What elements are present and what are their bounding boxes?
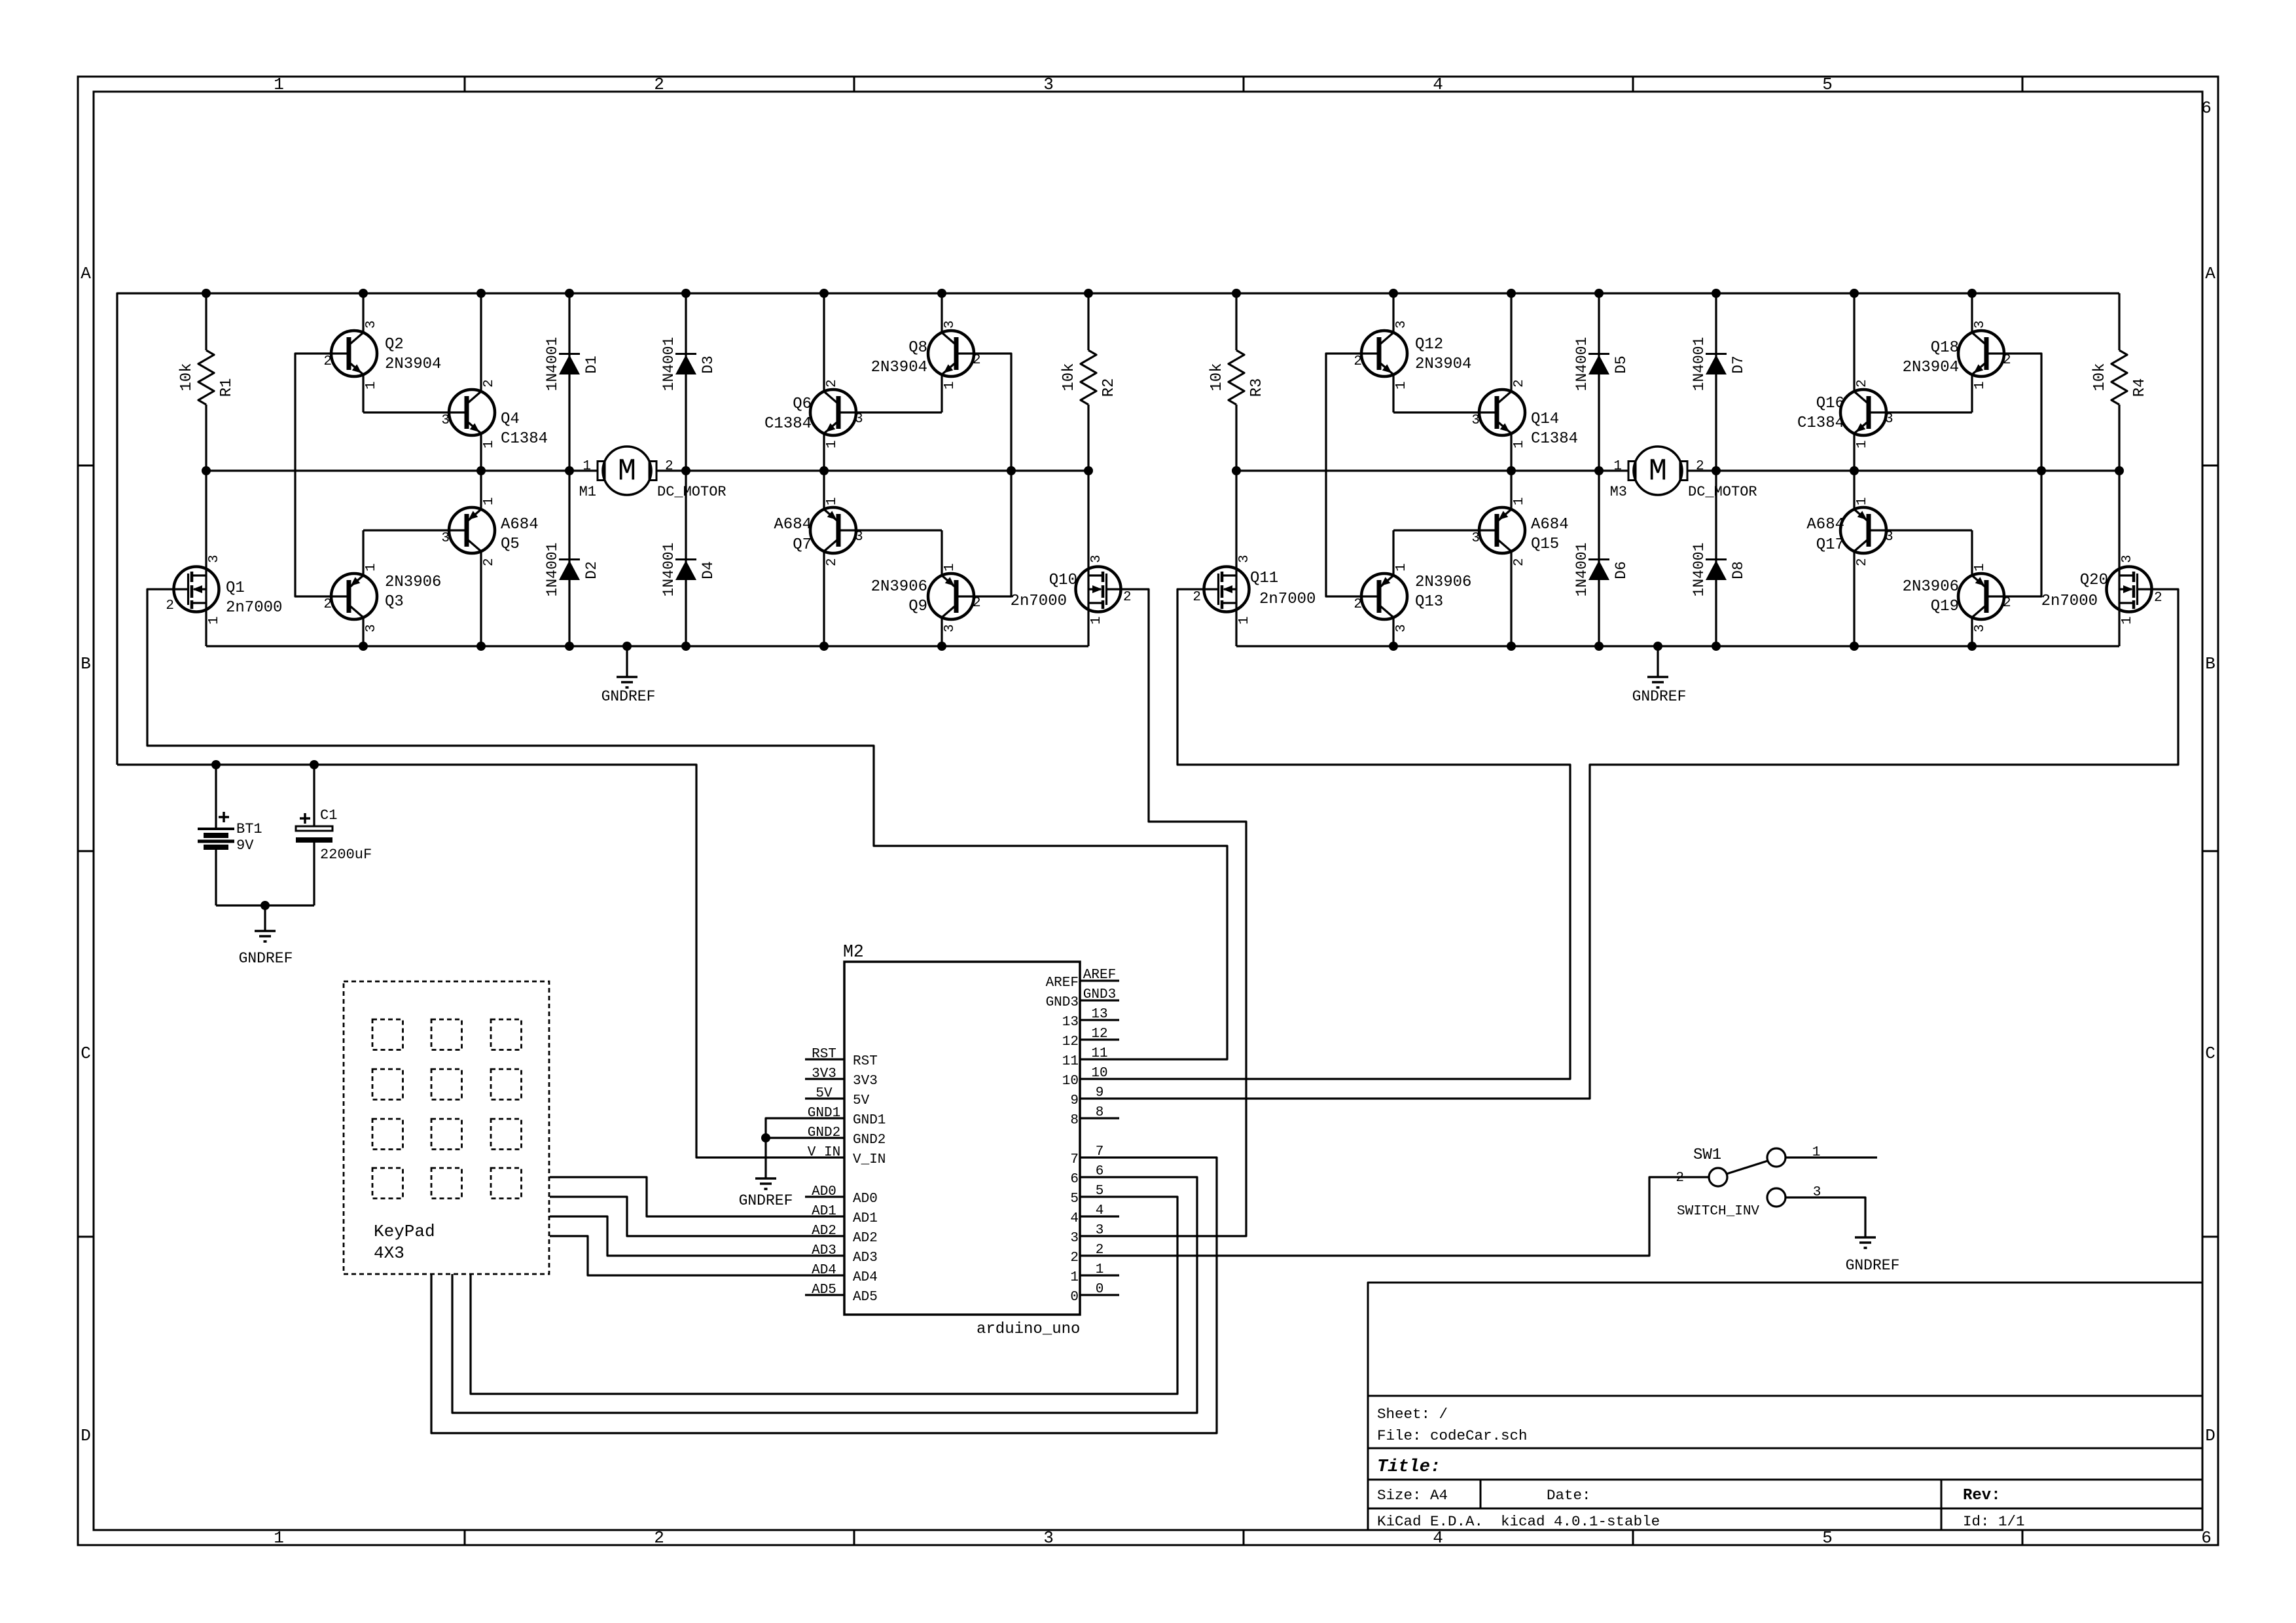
svg-text:10k: 10k	[1208, 363, 1226, 391]
svg-text:D3: D3	[700, 356, 717, 374]
svg-text:1N4001: 1N4001	[1573, 543, 1590, 597]
svg-text:Sheet: /: Sheet: /	[1377, 1406, 1448, 1423]
transistor Q17 A684	[1806, 471, 1893, 646]
svg-text:Q7: Q7	[793, 536, 812, 554]
svg-text:3: 3	[1885, 412, 1893, 427]
battery BT1 9V	[198, 765, 262, 905]
pin 12 of M2	[1062, 1027, 1119, 1049]
transistor Q16 C1384	[1797, 293, 1893, 471]
wire: GNDREF tap battery	[264, 905, 266, 931]
pin 4 of M2	[1070, 1203, 1119, 1226]
svg-text:Q19: Q19	[1931, 598, 1959, 615]
svg-text:D8: D8	[1730, 561, 1747, 579]
transistor Q1 2n7000	[166, 471, 282, 646]
svg-text:GNDREF: GNDREF	[1846, 1257, 1900, 1274]
svg-text:C: C	[2205, 1044, 2215, 1063]
pin AD1 of M2	[805, 1204, 878, 1226]
svg-text:3: 3	[441, 413, 450, 428]
svg-text:1: 1	[1855, 440, 1870, 448]
pin 13 of M2	[1062, 1007, 1119, 1030]
svg-text:2: 2	[323, 354, 332, 369]
wire: Q9 emitter to Q7 base	[838, 529, 942, 531]
svg-text:AD5: AD5	[853, 1290, 878, 1305]
svg-text:1: 1	[1512, 440, 1527, 448]
svg-text:1: 1	[942, 381, 958, 390]
svg-text:4X3: 4X3	[374, 1243, 404, 1263]
svg-text:GND3: GND3	[1083, 987, 1116, 1002]
svg-text:C1384: C1384	[1797, 414, 1844, 432]
svg-text:GNDREF: GNDREF	[601, 688, 656, 705]
svg-text:2: 2	[654, 75, 664, 94]
svg-text:6: 6	[2201, 1528, 2212, 1548]
svg-text:Q18: Q18	[1931, 339, 1959, 357]
wire: right bridge motor row west segment	[1236, 469, 1599, 471]
svg-text:9V: 9V	[236, 837, 254, 854]
wire: arduino pin 2 to SW1	[1119, 1177, 1709, 1256]
svg-text:AREF: AREF	[1046, 976, 1079, 991]
svg-text:13: 13	[1062, 1015, 1079, 1030]
svg-text:3: 3	[441, 531, 450, 546]
svg-text:A684: A684	[501, 516, 539, 534]
svg-text:A684: A684	[1531, 516, 1569, 534]
svg-text:arduino_uno: arduino_uno	[977, 1321, 1080, 1338]
transistor Q12 2N3904	[1354, 293, 1471, 412]
pin GND2 of M2	[805, 1125, 886, 1148]
wire: Q12-Q13 base column	[1326, 354, 1379, 596]
title block	[1368, 1283, 2202, 1530]
switch SW1 SWITCH_INV	[1676, 1145, 1821, 1219]
svg-text:1: 1	[1394, 381, 1409, 390]
resistor R2	[1060, 293, 1118, 471]
svg-text:3: 3	[1813, 1185, 1821, 1200]
svg-text:8: 8	[1096, 1105, 1104, 1120]
pin 2 of M2	[1070, 1243, 1119, 1266]
svg-text:1: 1	[1070, 1270, 1079, 1285]
svg-text:C: C	[81, 1044, 91, 1063]
transistor Q13 2N3906	[1354, 530, 1471, 646]
svg-text:R1: R1	[218, 378, 236, 397]
wire: right bridge motor row east segment	[1716, 469, 2119, 471]
svg-text:B: B	[2205, 654, 2215, 674]
svg-text:A684: A684	[774, 516, 812, 534]
svg-text:1: 1	[274, 75, 284, 94]
junction dots top bus	[202, 289, 1977, 298]
pin 9 of M2	[1070, 1085, 1119, 1108]
svg-text:2: 2	[2003, 596, 2011, 611]
svg-text:3: 3	[942, 624, 958, 632]
svg-text:BT1: BT1	[236, 821, 262, 837]
svg-text:Q6: Q6	[793, 395, 812, 413]
svg-text:V_IN: V_IN	[853, 1152, 886, 1167]
svg-text:2: 2	[1512, 558, 1527, 566]
pin 3V3 of M2	[805, 1067, 878, 1089]
ground GNDREF right bridge	[1632, 677, 1687, 705]
svg-text:AD3: AD3	[853, 1250, 878, 1266]
svg-text:3: 3	[1471, 531, 1480, 546]
transistor Q8 2N3904	[871, 293, 981, 412]
resistor R3	[1208, 293, 1266, 471]
pin 11 of M2	[1062, 1046, 1119, 1069]
wire: Q10 gate to arduino pin 3	[1107, 589, 1246, 1236]
pin 7 of M2	[1070, 1144, 1119, 1167]
svg-text:2: 2	[1676, 1171, 1684, 1186]
svg-text:Q20: Q20	[2080, 572, 2108, 589]
pin 3 of M2	[1070, 1223, 1119, 1246]
svg-text:R3: R3	[1248, 378, 1266, 397]
transistor Q18 2N3904	[1903, 293, 2011, 412]
svg-text:2: 2	[1855, 379, 1870, 388]
svg-text:12: 12	[1062, 1034, 1079, 1049]
svg-text:3: 3	[855, 412, 863, 427]
pin GND3 of M2	[1046, 987, 1119, 1010]
svg-text:KiCad E.D.A. kicad 4.0.1-stab: KiCad E.D.A. kicad 4.0.1-stable	[1377, 1513, 1660, 1530]
svg-text:Size: A4: Size: A4	[1377, 1487, 1448, 1504]
svg-text:D: D	[2205, 1426, 2215, 1446]
svg-text:GND1: GND1	[853, 1113, 886, 1128]
svg-text:3: 3	[1043, 75, 1054, 94]
svg-text:2: 2	[1512, 379, 1527, 388]
svg-text:1: 1	[2120, 616, 2135, 625]
wire: SW1 pin 3 to GNDREF	[1785, 1197, 1865, 1237]
diode D1	[544, 293, 600, 471]
svg-text:RST: RST	[853, 1054, 878, 1069]
svg-text:D: D	[81, 1426, 91, 1446]
wire: GNDREF tap left bridge	[626, 646, 628, 677]
svg-text:2: 2	[1070, 1250, 1079, 1266]
svg-text:5: 5	[1070, 1192, 1079, 1207]
wire: SW1 pin 1	[1785, 1156, 1877, 1158]
svg-text:M: M	[1649, 455, 1667, 490]
svg-text:2: 2	[973, 353, 981, 368]
junction dots power rail	[211, 760, 770, 1142]
transistor Q10 2n7000	[1011, 471, 1132, 646]
diode D8	[1691, 471, 1747, 646]
diode D7	[1691, 293, 1747, 471]
wire: keypad row to AD1	[550, 1177, 805, 1216]
svg-text:2: 2	[654, 1528, 664, 1548]
svg-text:2: 2	[2154, 591, 2162, 606]
svg-text:2: 2	[1855, 558, 1870, 566]
svg-text:File: codeCar.sch: File: codeCar.sch	[1377, 1427, 1528, 1444]
svg-text:3: 3	[207, 555, 222, 563]
pin 5V of M2	[805, 1086, 870, 1108]
svg-text:GNDREF: GNDREF	[1632, 688, 1687, 705]
svg-text:4: 4	[1070, 1211, 1079, 1226]
svg-text:11: 11	[1062, 1054, 1079, 1069]
row dividers	[78, 465, 2218, 1237]
svg-text:2: 2	[973, 596, 981, 611]
svg-text:B: B	[81, 654, 91, 674]
svg-text:2: 2	[166, 598, 174, 613]
transistor Q4 C1384	[441, 293, 548, 471]
svg-text:6: 6	[1070, 1172, 1079, 1187]
svg-text:2: 2	[323, 597, 332, 612]
svg-text:SW1: SW1	[1693, 1146, 1721, 1164]
svg-text:M3: M3	[1610, 484, 1627, 500]
svg-text:3: 3	[855, 530, 863, 545]
svg-text:1N4001: 1N4001	[1691, 543, 1708, 597]
svg-text:RST: RST	[812, 1047, 836, 1062]
svg-text:1N4001: 1N4001	[1691, 337, 1708, 392]
svg-text:AD4: AD4	[812, 1263, 836, 1278]
diode D6	[1573, 471, 1630, 646]
wire: battery rail to V_IN	[117, 765, 805, 1158]
svg-text:1N4001: 1N4001	[1573, 337, 1590, 392]
svg-text:1: 1	[1096, 1262, 1104, 1277]
wire: left bridge motor row west segment	[206, 469, 569, 471]
svg-text:AREF: AREF	[1083, 968, 1116, 983]
wire: +9V top bus and left rail	[117, 293, 2119, 765]
svg-text:1N4001: 1N4001	[544, 543, 561, 597]
svg-text:2n7000: 2n7000	[1011, 593, 1067, 610]
svg-text:R4: R4	[2131, 378, 2149, 397]
svg-text:D5: D5	[1613, 356, 1630, 374]
svg-text:3: 3	[1096, 1223, 1104, 1238]
svg-text:D6: D6	[1613, 561, 1630, 579]
transistor Q6 C1384	[764, 293, 863, 471]
svg-text:AD2: AD2	[812, 1224, 836, 1239]
ground GNDREF left bridge	[601, 677, 656, 705]
svg-text:2N3906: 2N3906	[385, 574, 441, 591]
svg-text:3: 3	[1237, 555, 1252, 563]
svg-text:Q1: Q1	[226, 579, 245, 597]
resistor R1	[178, 293, 236, 471]
wire: Q11 gate to arduino pin 10	[1119, 589, 1570, 1079]
svg-text:GND3: GND3	[1046, 995, 1079, 1010]
svg-text:3V3: 3V3	[853, 1074, 878, 1089]
transistor Q20 2n7000	[2041, 471, 2162, 646]
pin V_IN of M2	[805, 1145, 886, 1167]
svg-text:1: 1	[1394, 563, 1409, 572]
svg-text:1: 1	[1089, 616, 1104, 625]
wire: arduino GND1 to GNDREF	[766, 1118, 805, 1178]
svg-text:3V3: 3V3	[812, 1067, 836, 1082]
IC M2 arduino_uno body	[843, 942, 1080, 1338]
svg-text:4: 4	[1433, 1528, 1443, 1548]
diode D2	[544, 471, 600, 646]
svg-text:Title:: Title:	[1377, 1457, 1441, 1477]
svg-text:5: 5	[1822, 1528, 1833, 1548]
pin 6 of M2	[1070, 1164, 1119, 1187]
svg-text:GND2: GND2	[808, 1125, 840, 1140]
svg-text:A684: A684	[1806, 516, 1844, 534]
wire: Q2-Q3 base column	[295, 354, 349, 596]
pin AD5 of M2	[805, 1283, 878, 1305]
svg-text:1: 1	[1855, 497, 1870, 505]
svg-text:D7: D7	[1730, 356, 1747, 374]
svg-text:3: 3	[1043, 1528, 1054, 1548]
svg-text:Q14: Q14	[1531, 410, 1559, 428]
wire: keypad col to arduino pin 5	[471, 1197, 1177, 1394]
svg-text:M2: M2	[843, 942, 864, 962]
svg-text:10k: 10k	[2091, 363, 2109, 391]
ground GNDREF arduino	[739, 1178, 793, 1209]
svg-text:1: 1	[1812, 1145, 1821, 1160]
svg-text:Q4: Q4	[501, 410, 520, 428]
svg-text:6: 6	[2201, 98, 2212, 118]
wire: Q2 emitter to Q4 base	[363, 411, 466, 413]
svg-text:1: 1	[825, 440, 840, 448]
wire: Q13 emitter to Q15 base	[1393, 529, 1497, 531]
wire: keypad col to arduino pin 6	[452, 1177, 1197, 1413]
svg-text:3: 3	[1394, 320, 1409, 329]
svg-text:1: 1	[482, 440, 497, 448]
svg-text:3: 3	[1973, 320, 1988, 329]
svg-text:2: 2	[482, 379, 497, 388]
svg-text:AD0: AD0	[812, 1184, 836, 1199]
svg-text:C1384: C1384	[764, 415, 812, 433]
svg-text:2: 2	[1193, 590, 1201, 605]
diode D3	[660, 293, 717, 471]
svg-text:2: 2	[1123, 590, 1132, 605]
junction dots bottom buses	[359, 642, 1977, 651]
column dividers	[465, 77, 2022, 1545]
frame row labels	[81, 264, 2215, 1446]
svg-text:AD1: AD1	[812, 1204, 836, 1219]
ground GNDREF switch	[1846, 1237, 1900, 1274]
svg-text:Rev:: Rev:	[1963, 1487, 2001, 1504]
wire: right bridge bottom bus	[1236, 645, 2119, 647]
wire: Q18/Q19 bases to motor row	[1986, 354, 2041, 596]
svg-text:1: 1	[1973, 381, 1988, 390]
svg-text:Q15: Q15	[1531, 536, 1559, 553]
svg-text:3: 3	[1089, 555, 1104, 563]
svg-text:Q11: Q11	[1250, 570, 1278, 587]
svg-text:1: 1	[364, 381, 379, 390]
svg-text:2n7000: 2n7000	[2041, 593, 2098, 610]
capacitor C1 2200uF	[296, 765, 372, 905]
svg-text:M1: M1	[579, 484, 596, 500]
svg-text:GNDREF: GNDREF	[739, 1192, 793, 1209]
svg-text:2N3904: 2N3904	[385, 356, 441, 373]
svg-text:9: 9	[1070, 1093, 1079, 1108]
junction dots motor rows	[202, 466, 2124, 475]
svg-text:AD2: AD2	[853, 1231, 878, 1246]
svg-text:Q12: Q12	[1415, 336, 1443, 354]
svg-text:C1384: C1384	[501, 430, 548, 448]
wire: Q8/Q9 bases to motor row	[956, 354, 1011, 596]
svg-text:2N3904: 2N3904	[871, 359, 927, 376]
ground GNDREF battery	[239, 931, 293, 967]
wire: M3 pin stubs	[1599, 469, 1716, 471]
svg-text:GND2: GND2	[853, 1133, 886, 1148]
motor M3 DC_MOTOR	[1610, 447, 1757, 500]
svg-text:AD1: AD1	[853, 1211, 878, 1226]
wire: GNDREF tap right bridge	[1657, 646, 1659, 677]
svg-text:3: 3	[2120, 555, 2135, 563]
svg-text:R2: R2	[1100, 378, 1118, 397]
wire: Q1 gate to arduino pin 11	[147, 589, 1227, 1059]
wire: Q12 emitter to Q14 base	[1393, 411, 1497, 413]
wire: keypad row to AD3	[550, 1216, 805, 1256]
svg-text:C1384: C1384	[1531, 430, 1578, 448]
pin AREF of M2	[1046, 968, 1119, 991]
svg-text:12: 12	[1091, 1027, 1107, 1042]
wire: keypad row to AD4	[550, 1236, 805, 1275]
pin AD2 of M2	[805, 1224, 878, 1246]
wire: Q3 emitter to Q5 base	[363, 529, 466, 531]
svg-text:1: 1	[207, 616, 222, 625]
svg-text:11: 11	[1091, 1046, 1107, 1061]
svg-text:1: 1	[1237, 616, 1252, 625]
svg-text:3: 3	[364, 624, 379, 632]
svg-text:Q17: Q17	[1816, 536, 1844, 554]
pin RST of M2	[805, 1047, 878, 1069]
svg-text:2N3906: 2N3906	[1415, 574, 1471, 591]
svg-text:7: 7	[1070, 1152, 1079, 1167]
pin GND1 of M2	[805, 1106, 886, 1128]
svg-text:Q13: Q13	[1415, 593, 1443, 611]
transistor Q7 A684	[774, 471, 863, 646]
svg-text:3: 3	[364, 320, 379, 329]
svg-text:5V: 5V	[853, 1093, 870, 1108]
svg-text:2: 2	[1096, 1243, 1104, 1258]
svg-text:1N4001: 1N4001	[660, 337, 677, 392]
transistor Q2 2N3904	[323, 293, 441, 412]
svg-text:1: 1	[274, 1528, 284, 1548]
svg-text:0: 0	[1096, 1282, 1104, 1297]
transistor Q19 2N3906	[1903, 530, 2011, 646]
svg-text:0: 0	[1070, 1290, 1079, 1305]
transistor Q11 2n7000	[1193, 471, 1316, 646]
wire: Q19 emitter to Q17 base	[1869, 529, 1972, 531]
svg-text:1: 1	[825, 497, 840, 505]
pin 5 of M2	[1070, 1184, 1119, 1207]
svg-text:9: 9	[1096, 1085, 1104, 1101]
wire: Q8 emitter to Q6 base	[838, 411, 942, 413]
pin 1 of M2	[1070, 1262, 1119, 1285]
svg-text:4: 4	[1096, 1203, 1104, 1218]
pin 10 of M2	[1062, 1066, 1119, 1089]
svg-text:D4: D4	[700, 561, 717, 579]
svg-text:5: 5	[1096, 1184, 1104, 1199]
svg-text:3: 3	[1070, 1231, 1079, 1246]
svg-text:2: 2	[825, 379, 840, 388]
svg-text:1N4001: 1N4001	[544, 337, 561, 392]
svg-text:1: 1	[364, 563, 379, 572]
svg-text:10k: 10k	[1060, 363, 1078, 391]
svg-text:DC_MOTOR: DC_MOTOR	[657, 484, 726, 500]
svg-text:Q5: Q5	[501, 536, 520, 553]
svg-text:AD3: AD3	[812, 1243, 836, 1258]
wire: left bridge bottom bus	[206, 645, 1088, 647]
wire: left bridge motor row east segment	[686, 469, 1088, 471]
svg-text:4: 4	[1433, 75, 1443, 94]
svg-text:1: 1	[1973, 563, 1988, 572]
wire: keypad col to arduino pin 7	[431, 1158, 1217, 1433]
svg-text:8: 8	[1070, 1113, 1079, 1128]
svg-text:10: 10	[1062, 1074, 1079, 1089]
svg-text:6: 6	[1096, 1164, 1104, 1179]
svg-text:1: 1	[1512, 497, 1527, 505]
resistor R4	[2091, 293, 2149, 471]
svg-text:3: 3	[1394, 624, 1409, 632]
svg-text:AD0: AD0	[853, 1192, 878, 1207]
svg-text:AD5: AD5	[812, 1283, 836, 1298]
svg-text:2n7000: 2n7000	[226, 599, 282, 617]
svg-text:A: A	[81, 264, 91, 283]
wire: keypad row to AD2	[550, 1197, 805, 1236]
svg-text:Q2: Q2	[385, 336, 404, 354]
svg-text:Id: 1/1: Id: 1/1	[1963, 1513, 2025, 1530]
transistor Q5 A684	[441, 471, 538, 646]
transistor Q3 2N3906	[323, 530, 441, 646]
pin AD0 of M2	[805, 1184, 878, 1207]
svg-text:GNDREF: GNDREF	[239, 950, 293, 967]
svg-text:2: 2	[825, 558, 840, 566]
svg-text:Q10: Q10	[1049, 572, 1077, 589]
wire: M1 pin stubs	[569, 469, 686, 471]
